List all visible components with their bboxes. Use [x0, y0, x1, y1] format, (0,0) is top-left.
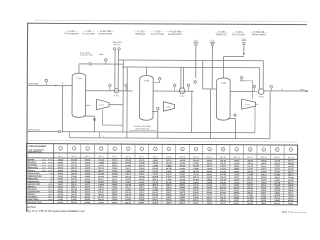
svg-text:REBOILER: REBOILER	[216, 34, 227, 36]
svg-text:412.65: 412.65	[274, 159, 280, 162]
svg-text:98.725: 98.725	[288, 200, 294, 202]
svg-text:0.8842: 0.8842	[71, 175, 77, 178]
svg-text:mN/m: mN/m	[48, 199, 53, 201]
svg-text:BTMS PUMPS: BTMS PUMPS	[99, 33, 113, 35]
product line down	[269, 91, 271, 139]
svg-text:48.915: 48.915	[58, 169, 64, 172]
svg-text:764.92: 764.92	[152, 170, 158, 173]
svg-text:NO. 8: NO. 8	[153, 156, 158, 158]
utility cw drop	[241, 39, 246, 56]
P-102 flank lollipop left	[173, 84, 176, 91]
svg-text:876.25: 876.25	[85, 199, 91, 201]
svg-text:315.07: 315.07	[193, 203, 199, 205]
svg-text:0.9822: 0.9822	[166, 171, 172, 173]
stream number circles	[59, 147, 293, 152]
svg-text:103.29: 103.29	[57, 202, 63, 204]
svg-text:48.915: 48.915	[261, 170, 267, 173]
svg-text:TEMPERATURE: TEMPERATURE	[28, 175, 42, 178]
svg-text:48.915: 48.915	[288, 168, 294, 171]
bottoms header L4	[27, 132, 255, 133]
svg-text:0.9822: 0.9822	[179, 200, 185, 202]
svg-text:NO. 3: NO. 3	[85, 156, 90, 158]
svg-text:176.20: 176.20	[71, 170, 77, 172]
svg-text:140.35: 140.35	[152, 173, 158, 176]
svg-text:412.65: 412.65	[207, 181, 213, 184]
svg-text:T-103: T-103	[221, 83, 227, 85]
P-102 suction line	[153, 90, 193, 92]
svg-text:4: 4	[101, 148, 102, 150]
lps diamond	[194, 80, 197, 83]
svg-text:OPEN VENT LINE: OPEN VENT LINE	[135, 128, 150, 130]
svg-text:NO. 12: NO. 12	[207, 157, 213, 159]
P-103 flank lollipop left	[253, 85, 256, 91]
equipment title T-101	[82, 30, 95, 36]
svg-text:98.725: 98.725	[247, 200, 253, 202]
svg-text:223.64: 223.64	[261, 199, 267, 202]
svg-text:STAND-BY (SIC): STAND-BY (SIC)	[80, 53, 93, 56]
svg-text:NO. 10: NO. 10	[180, 157, 186, 159]
exchanger E-103	[242, 99, 256, 109]
L4 inst	[58, 130, 60, 132]
svg-text:11: 11	[195, 149, 197, 151]
svg-text:Fig. 10-2. PFD of the liquid-: Fig. 10-2. PFD of the liquid-phase disti…	[27, 209, 85, 213]
svg-text:0.4173: 0.4173	[166, 175, 172, 178]
svg-text:3: 3	[102, 136, 103, 138]
equipment title P-103 A/B	[250, 31, 268, 37]
svg-text:48.915: 48.915	[85, 167, 91, 170]
svg-text:10: 10	[182, 149, 184, 151]
svg-text:64.384: 64.384	[166, 181, 172, 184]
svg-text:315.07: 315.07	[274, 169, 280, 171]
svg-text:kmol/h: kmol/h	[48, 170, 53, 172]
svg-text:NO. 15: NO. 15	[247, 157, 253, 159]
svg-text:176.20: 176.20	[112, 171, 118, 173]
L5 left drop	[68, 132, 70, 138]
svg-text:1205.6: 1205.6	[207, 203, 213, 205]
svg-text:17: 17	[276, 149, 278, 151]
faint sheet edge line	[34, 20, 308, 21]
svg-text:0.8842: 0.8842	[71, 198, 77, 201]
svg-text:140.35: 140.35	[247, 202, 253, 205]
lps line to vessel	[202, 60, 216, 138]
svg-text:3rd COLUMN: 3rd COLUMN	[232, 33, 245, 36]
svg-text:764.92: 764.92	[98, 167, 104, 170]
svg-text:48.915: 48.915	[234, 178, 240, 181]
svg-text:155.04: 155.04	[220, 176, 226, 179]
svg-text:2511.8: 2511.8	[98, 170, 103, 172]
pump P-102	[179, 88, 185, 98]
svg-text:140.35: 140.35	[112, 175, 118, 178]
svg-text:REBOILER: REBOILER	[135, 34, 146, 36]
svg-text:0.8842: 0.8842	[139, 170, 145, 173]
pump suction line	[86, 90, 133, 92]
svg-text:5: 5	[114, 148, 115, 150]
svg-text:46.07: 46.07	[42, 167, 46, 169]
svg-text:223.64: 223.64	[207, 159, 213, 162]
svg-text:12: 12	[209, 149, 211, 151]
T-101 bottoms	[84, 116, 96, 132]
svg-text:0.8842: 0.8842	[58, 161, 64, 164]
svg-text:kPa: kPa	[50, 179, 53, 181]
P-102 top pair	[181, 67, 184, 88]
svg-text:(NOTE 2): (NOTE 2)	[113, 44, 121, 46]
feed branch down	[61, 85, 63, 131]
svg-text:METHANOL: METHANOL	[28, 166, 39, 169]
bottoms header L5	[69, 138, 269, 139]
svg-text:764.92: 764.92	[58, 172, 64, 175]
svg-text:0.8842: 0.8842	[98, 161, 104, 164]
svg-text:140.35: 140.35	[139, 175, 145, 178]
svg-text:48.915: 48.915	[71, 178, 77, 181]
feed instrument	[45, 79, 48, 85]
svg-text:VAPOR FRAC.: VAPOR FRAC.	[28, 180, 41, 183]
equipment title T-102	[151, 30, 165, 36]
vessel T-103	[216, 78, 230, 120]
svg-text:18.02: 18.02	[42, 165, 46, 167]
svg-text:E-102: E-102	[166, 106, 171, 108]
svg-text:WWTR W-03: WWTR W-03	[28, 130, 39, 132]
svg-text:0.4173: 0.4173	[220, 167, 226, 170]
svg-text:0.8842: 0.8842	[85, 175, 91, 178]
svg-text:176.20: 176.20	[207, 168, 213, 170]
svg-text:SURF. TENS.: SURF. TENS.	[28, 199, 39, 201]
svg-text:764.92: 764.92	[58, 175, 64, 178]
svg-text:223.64: 223.64	[234, 202, 240, 205]
utility lps drop	[193, 40, 199, 78]
svg-text:NO. 2: NO. 2	[72, 156, 77, 158]
svg-text:T-101: T-101	[76, 78, 82, 80]
stream tags bottom	[99, 132, 214, 139]
svg-text:NO. 9: NO. 9	[167, 156, 172, 158]
svg-text:P-101: P-101	[114, 95, 119, 97]
svg-text:176.20: 176.20	[220, 171, 226, 173]
utility lpc drop	[209, 40, 215, 89]
svg-text:48.915: 48.915	[139, 159, 145, 162]
svg-text:NO. 13: NO. 13	[220, 157, 226, 159]
T-103 bottoms	[228, 114, 237, 139]
E-101 piping	[102, 105, 123, 126]
caution note	[129, 125, 156, 131]
svg-text:ENTHALPY MJ/h: ENTHALPY MJ/h	[28, 201, 42, 204]
svg-text:frac: frac	[50, 181, 53, 183]
riser pair down	[123, 60, 127, 138]
svg-text:764.92: 764.92	[261, 159, 267, 162]
svg-text:1067.2: 1067.2	[125, 168, 131, 170]
svg-text:64.384: 64.384	[207, 170, 213, 173]
L1 right drop	[262, 61, 264, 89]
svg-text:E-103: E-103	[245, 104, 250, 106]
svg-text:412.65: 412.65	[180, 178, 186, 181]
svg-text:140.35: 140.35	[153, 162, 159, 165]
P-102 flank lollipop right	[187, 84, 190, 91]
svg-text:NO. 7: NO. 7	[139, 156, 144, 158]
svg-text:155.04: 155.04	[166, 201, 172, 204]
properties rows	[28, 183, 294, 202]
svg-text:W-02: W-02	[300, 89, 304, 91]
svg-text:0.8842: 0.8842	[125, 198, 131, 201]
svg-text:0.4173: 0.4173	[261, 168, 267, 171]
svg-text:kmol/h: kmol/h	[48, 191, 53, 193]
feed line	[27, 84, 72, 86]
svg-text:EtOH W-01: EtOH W-01	[29, 82, 39, 85]
drawing frame top border	[28, 23, 307, 24]
svg-text:P-103: P-103	[259, 96, 264, 98]
svg-text:0.8842: 0.8842	[220, 165, 226, 168]
svg-text:64.384: 64.384	[234, 162, 240, 165]
vessel T-102	[139, 75, 153, 120]
equipment title P-102 A/B	[166, 30, 184, 36]
svg-text:PFD T-10 —— ———: PFD T-10 —— ———	[282, 211, 307, 214]
P-103 suction line	[230, 90, 258, 92]
svg-text:FEED HEATER: FEED HEATER	[64, 32, 79, 35]
svg-text:64.384: 64.384	[112, 172, 118, 175]
svg-text:0.9822: 0.9822	[125, 171, 131, 173]
svg-text:155.04: 155.04	[207, 173, 213, 176]
equipment title P-101 A/B	[97, 30, 115, 36]
svg-text:1205.6: 1205.6	[112, 202, 118, 204]
svg-text:0.4173: 0.4173	[274, 165, 280, 168]
svg-text:98.725: 98.725	[166, 168, 172, 170]
svg-text:412.65: 412.65	[274, 181, 280, 184]
svg-text:mPa s: mPa s	[48, 196, 53, 198]
conditions rows	[28, 172, 294, 184]
svg-text:764.92: 764.92	[166, 198, 172, 201]
header line L2	[122, 66, 260, 69]
svg-text:ETHANOL: ETHANOL	[28, 161, 38, 164]
stream table outer box	[26, 144, 297, 205]
svg-text:18: 18	[290, 149, 292, 151]
svg-text:7: 7	[141, 149, 142, 151]
svg-text:BTMS PUMPS: BTMS PUMPS	[168, 34, 182, 36]
equipment title T-103	[232, 31, 245, 37]
svg-text:64.384: 64.384	[193, 178, 199, 181]
svg-text:764.92: 764.92	[247, 170, 253, 173]
T-102 bottoms	[152, 107, 159, 138]
T-103 overhead to CW	[223, 57, 243, 79]
T-102 top feed	[146, 67, 148, 75]
svg-text:230.16: 230.16	[193, 200, 199, 202]
svg-text:3.1682: 3.1682	[57, 199, 63, 201]
equipment title E-101	[64, 30, 79, 36]
svg-text:1067.2: 1067.2	[85, 170, 91, 172]
header line L1	[118, 59, 263, 62]
svg-text:445.13: 445.13	[193, 176, 199, 179]
svg-text:98.725: 98.725	[193, 171, 199, 173]
T-102 inst diamond	[153, 77, 161, 83]
pump P-103	[258, 89, 264, 99]
svg-text:TOTALS: TOTALS	[28, 169, 36, 172]
pump P-101	[114, 88, 119, 97]
svg-text:48.915: 48.915	[261, 179, 267, 182]
svg-text:18.02: 18.02	[42, 159, 46, 161]
svg-text:NO. 14: NO. 14	[234, 157, 240, 159]
svg-text:0.8842: 0.8842	[166, 164, 172, 167]
svg-text:58.08: 58.08	[42, 170, 46, 172]
svg-text:223.64: 223.64	[247, 176, 253, 179]
svg-text:3.1682: 3.1682	[98, 202, 104, 204]
svg-text:445.13: 445.13	[288, 173, 294, 176]
svg-text:155.04: 155.04	[220, 199, 226, 202]
E-103 drain to L4	[254, 105, 256, 132]
svg-text:318.27: 318.27	[288, 203, 294, 205]
svg-text:NO. 18: NO. 18	[288, 157, 294, 159]
svg-text:445.13: 445.13	[261, 173, 267, 176]
svg-text:NO. 17: NO. 17	[274, 157, 280, 159]
svg-text:223.64: 223.64	[71, 172, 77, 175]
svg-text:64.384: 64.384	[180, 167, 186, 170]
svg-text:9: 9	[168, 149, 169, 151]
svg-text:0.4173: 0.4173	[85, 164, 91, 167]
product line	[264, 88, 309, 92]
svg-text:412.65: 412.65	[207, 176, 213, 179]
svg-text:1st COLUMN: 1st COLUMN	[82, 32, 95, 35]
svg-text:NO. 4: NO. 4	[99, 156, 104, 158]
svg-text:PROD PUMPS: PROD PUMPS	[252, 34, 267, 36]
faint rule above table	[27, 141, 297, 142]
overhead diamond	[89, 62, 92, 65]
svg-text:kmol/h: kmol/h	[48, 159, 53, 161]
svg-text:NOTES:: NOTES:	[27, 206, 37, 209]
E-103 inlet lollipop	[240, 76, 253, 99]
svg-text:E-101: E-101	[100, 105, 105, 107]
svg-text:412.65: 412.65	[180, 181, 186, 184]
svg-text:T-102: T-102	[144, 80, 150, 82]
svg-text:876.25: 876.25	[153, 168, 159, 170]
cwr riser	[118, 48, 121, 88]
description row	[28, 151, 293, 159]
svg-text:kmol/h: kmol/h	[48, 184, 53, 186]
svg-text:64.384: 64.384	[98, 175, 104, 178]
svg-text:2: 2	[74, 148, 75, 150]
E-103 out	[256, 103, 259, 105]
svg-text:TOTAL FLOW: TOTAL FLOW	[28, 172, 40, 175]
svg-text:kmol/h: kmol/h	[48, 162, 53, 164]
equipment title E-103	[215, 31, 228, 37]
svg-text:kmol/h: kmol/h	[48, 165, 53, 167]
svg-text:14: 14	[236, 149, 238, 151]
svg-text:kmol/h: kmol/h	[48, 167, 53, 169]
table horizontal rules	[26, 153, 297, 202]
svg-text:223.64: 223.64	[71, 167, 77, 170]
utility label CWS/CWR	[112, 42, 122, 46]
svg-text:WATER: WATER	[28, 158, 35, 161]
svg-text:0.9822: 0.9822	[234, 168, 240, 170]
svg-text:1205.6: 1205.6	[112, 168, 118, 170]
svg-text:3: 3	[87, 148, 88, 150]
T-101 overhead line	[79, 64, 123, 74]
svg-text:223.64: 223.64	[139, 164, 145, 167]
svg-text:103.29: 103.29	[139, 199, 145, 201]
svg-text:140.35: 140.35	[180, 159, 186, 162]
svg-text:0.8842: 0.8842	[274, 179, 280, 182]
svg-text:315.07: 315.07	[220, 203, 226, 205]
exchanger E-102	[164, 102, 175, 112]
P-102 discharge down	[191, 91, 193, 132]
svg-text:764.92: 764.92	[125, 161, 131, 164]
svg-text:NO. 16: NO. 16	[261, 157, 267, 159]
svg-text:0.8842: 0.8842	[153, 159, 159, 162]
svg-text:176.20: 176.20	[112, 199, 118, 201]
T-101 nozzle	[86, 104, 90, 106]
svg-text:15: 15	[249, 149, 251, 151]
note diamond	[104, 58, 107, 64]
svg-text:kg/m3: kg/m3	[48, 194, 52, 196]
svg-text:STREAM NUMBER: STREAM NUMBER	[28, 145, 46, 148]
svg-text:64.384: 64.384	[288, 179, 294, 182]
svg-text:445.13: 445.13	[247, 162, 253, 165]
svg-text:764.92: 764.92	[85, 159, 91, 162]
svg-text:315.07: 315.07	[234, 200, 240, 202]
svg-text:kg/m3: kg/m3	[48, 186, 52, 188]
svg-text:445.13: 445.13	[179, 202, 185, 205]
pump flank lollipop right	[125, 84, 128, 91]
svg-text:mPa s: mPa s	[48, 189, 53, 191]
P-101 note	[80, 51, 104, 56]
svg-text:318.27: 318.27	[274, 171, 280, 173]
svg-text:P-102: P-102	[180, 96, 185, 98]
svg-text:98.725: 98.725	[71, 202, 77, 204]
svg-text:64.384: 64.384	[125, 164, 131, 167]
svg-text:18.02: 18.02	[42, 162, 46, 164]
svg-text:6: 6	[128, 149, 129, 151]
svg-text:3.1682: 3.1682	[180, 171, 186, 173]
svg-text:64.384: 64.384	[274, 173, 280, 176]
svg-text:13: 13	[222, 149, 224, 151]
svg-text:223.64: 223.64	[98, 198, 104, 201]
svg-text:0.8842: 0.8842	[234, 170, 240, 173]
table vertical rules	[53, 144, 284, 205]
svg-text:445.13: 445.13	[112, 159, 118, 162]
svg-text:764.92: 764.92	[98, 159, 104, 162]
svg-text:1067.2: 1067.2	[152, 199, 158, 201]
equipment title E-102	[134, 30, 147, 36]
svg-text:0.8842: 0.8842	[261, 202, 267, 205]
svg-text:NO. 1: NO. 1	[58, 156, 63, 158]
svg-text:NO. 6: NO. 6	[126, 156, 131, 158]
svg-text:NO. 5: NO. 5	[112, 156, 117, 158]
enthalpy row	[28, 201, 294, 205]
svg-text:0.8842: 0.8842	[207, 178, 213, 181]
svg-text:2nd COLUMN: 2nd COLUMN	[151, 34, 165, 36]
P-103 flank lollipop right	[270, 86, 273, 91]
svg-text:ACETONE: ACETONE	[28, 164, 38, 167]
svg-text:16: 16	[263, 149, 265, 151]
svg-text:64.384: 64.384	[71, 158, 77, 161]
svg-text:kg/h: kg/h	[50, 173, 53, 175]
svg-text:230.16: 230.16	[125, 202, 131, 204]
drawing frame left border	[26, 23, 29, 212]
svg-text:0.4173: 0.4173	[247, 167, 253, 170]
exchanger E-101	[97, 99, 110, 109]
component rows	[28, 158, 294, 173]
svg-text:140.35: 140.35	[288, 165, 294, 168]
svg-text:223.64: 223.64	[288, 170, 294, 173]
svg-text:8: 8	[155, 149, 156, 151]
svg-text:64.384: 64.384	[166, 162, 172, 165]
svg-text:764.92: 764.92	[139, 167, 145, 170]
svg-text:0.4173: 0.4173	[98, 164, 104, 167]
svg-text:4: 4	[213, 137, 214, 139]
svg-text:48.915: 48.915	[152, 201, 158, 204]
svg-text:1: 1	[60, 148, 61, 150]
cws riser	[113, 48, 116, 88]
svg-text:223.64: 223.64	[274, 202, 280, 205]
pump flank lollipop left	[109, 84, 112, 91]
svg-text:155.04: 155.04	[207, 199, 213, 202]
svg-text:DESCRIPTION: DESCRIPTION	[28, 151, 42, 153]
svg-text:NO. 11: NO. 11	[193, 157, 199, 159]
svg-text:64.384: 64.384	[85, 201, 91, 204]
